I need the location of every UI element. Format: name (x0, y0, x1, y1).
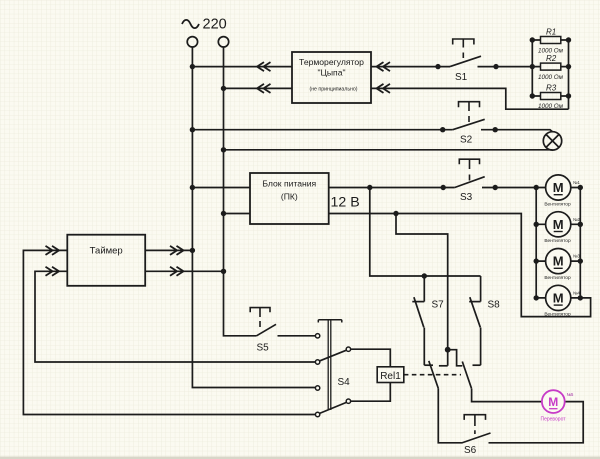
svg-text:Таймер: Таймер (90, 246, 123, 257)
svg-text:Блок питания: Блок питания (262, 178, 316, 188)
svg-text:Rel1: Rel1 (380, 371, 401, 382)
svg-text:S6: S6 (464, 445, 477, 456)
svg-text:M: M (553, 180, 564, 195)
svg-text:№1: №1 (573, 180, 580, 185)
svg-text:"Цыпа": "Цыпа" (317, 68, 345, 78)
svg-text:Вентилятор: Вентилятор (544, 275, 571, 281)
svg-text:S5: S5 (257, 343, 270, 354)
svg-text:№2: №2 (573, 217, 580, 222)
svg-text:12 В: 12 В (331, 195, 360, 211)
svg-text:№5: №5 (567, 392, 574, 397)
svg-text:Переворот: Переворот (540, 417, 566, 423)
svg-text:M: M (553, 254, 564, 269)
svg-text:S7: S7 (432, 300, 445, 311)
svg-text:M: M (553, 290, 564, 305)
svg-text:R3: R3 (546, 84, 557, 93)
svg-text:№3: №3 (573, 254, 580, 259)
svg-text:M: M (548, 395, 558, 409)
svg-text:S4: S4 (338, 377, 351, 388)
svg-text:S1: S1 (455, 72, 468, 83)
svg-text:S8: S8 (488, 300, 501, 311)
svg-text:Вентилятор: Вентилятор (544, 312, 571, 318)
svg-text:Вентилятор: Вентилятор (544, 201, 571, 207)
svg-text:R1: R1 (546, 28, 556, 37)
svg-text:S2: S2 (460, 135, 473, 146)
svg-text:Терморегулятор: Терморегулятор (299, 57, 364, 67)
svg-text:№4: №4 (573, 290, 580, 295)
svg-text:1000 Ом: 1000 Ом (538, 103, 564, 110)
svg-text:(ПК): (ПК) (281, 192, 298, 202)
svg-text:(не принципиально): (не принципиально) (309, 87, 357, 93)
svg-text:1000 Ом: 1000 Ом (538, 74, 564, 81)
svg-text:Вентилятор: Вентилятор (544, 238, 571, 244)
svg-text:R2: R2 (546, 54, 557, 63)
svg-text:220: 220 (203, 17, 227, 33)
svg-text:M: M (553, 217, 564, 232)
svg-text:S3: S3 (460, 192, 473, 203)
